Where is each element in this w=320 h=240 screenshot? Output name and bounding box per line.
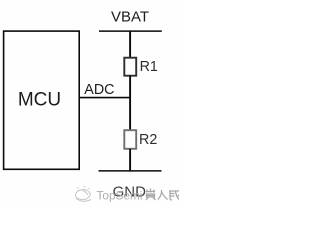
svg-text:R1: R1 — [140, 59, 158, 75]
wire R2 to GND rail — [129, 149, 131, 171]
wire MCU ADC pin to divider node — [79, 97, 131, 99]
watermark logo icon — [75, 187, 91, 202]
svg-text:MCU: MCU — [18, 90, 61, 111]
MCU U1 box — [4, 31, 80, 169]
svg-text:ADC: ADC — [84, 82, 114, 98]
wire R1 to R2 (node with ADC) — [129, 76, 131, 131]
watermark CJK glyphs (drawn) — [146, 189, 179, 201]
svg-text:R2: R2 — [139, 132, 157, 148]
resistor R2 — [124, 130, 136, 149]
GND rail wire — [99, 170, 162, 172]
svg-text:TopSemi: TopSemi — [97, 189, 143, 203]
wire VBAT rail to R1 — [129, 31, 131, 58]
resistor R1 — [124, 58, 136, 76]
VBAT rail wire — [99, 30, 162, 32]
svg-text:VBAT: VBAT — [111, 9, 149, 26]
